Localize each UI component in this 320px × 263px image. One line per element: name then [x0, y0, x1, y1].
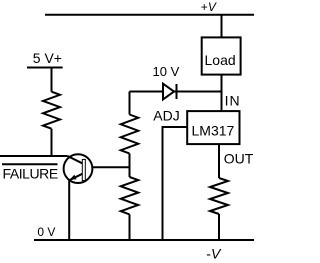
- svg-text:+V: +V: [201, 0, 217, 14]
- svg-text:10 V: 10 V: [153, 64, 180, 79]
- svg-text:Load: Load: [205, 52, 236, 68]
- svg-text:IN: IN: [225, 93, 241, 109]
- svg-text:-V: -V: [206, 245, 222, 261]
- svg-text:0 V: 0 V: [37, 225, 55, 239]
- svg-text:ADJ: ADJ: [153, 107, 179, 123]
- svg-text:5 V+: 5 V+: [33, 50, 62, 66]
- svg-text:LM317: LM317: [192, 123, 235, 139]
- svg-text:OUT: OUT: [224, 151, 254, 167]
- svg-text:FAILURE: FAILURE: [3, 166, 58, 182]
